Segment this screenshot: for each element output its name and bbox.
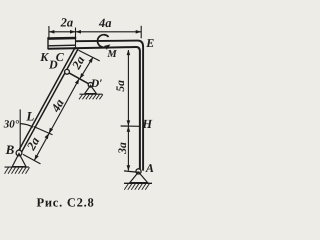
dimension extension from B — [23, 154, 41, 164]
top bar K-C inner lower line — [49, 44, 76, 47]
tick at H — [121, 125, 140, 127]
arrow right of 2a — [70, 30, 76, 34]
support D' hatching — [79, 95, 103, 100]
arrow at B end — [34, 155, 38, 161]
tick at A level — [124, 171, 140, 173]
dimension 5a line — [127, 50, 129, 126]
top bar K-E outline — [48, 37, 143, 170]
svg-text:30°: 30° — [3, 118, 20, 130]
bar B-C double line — [18, 47, 78, 153]
arrow at L up — [45, 133, 49, 139]
svg-text:5a: 5a — [115, 80, 127, 92]
support B pin circle — [16, 150, 22, 156]
svg-text:L: L — [25, 109, 34, 124]
support D' triangle — [85, 85, 97, 93]
svg-text:K: K — [39, 50, 49, 64]
dimension top: extension tick left (K) — [48, 26, 50, 38]
svg-text:D′: D′ — [90, 78, 103, 90]
dimension line B-L-D (lower) — [34, 79, 79, 161]
arrow right of 4a — [136, 30, 142, 34]
rod D-D' — [67, 72, 91, 85]
arrow left of 2a — [49, 30, 55, 34]
dimension top: extension tick middle (C) — [75, 28, 77, 50]
support A pin circle — [136, 169, 141, 174]
support B hatching — [5, 167, 30, 173]
svg-text:Рис. С2.8: Рис. С2.8 — [36, 196, 94, 210]
arrow C-D top — [89, 57, 94, 63]
angle arc 30deg — [20, 124, 33, 128]
arrow 5a top — [127, 50, 131, 56]
svg-text:2a: 2a — [60, 15, 74, 29]
support D' pin circle — [88, 83, 93, 88]
support B triangle — [12, 154, 26, 167]
support D' ground line — [80, 93, 103, 95]
svg-text:D: D — [48, 57, 58, 71]
svg-text:4a: 4a — [98, 16, 112, 30]
tick at L — [34, 127, 53, 135]
svg-text:B: B — [5, 142, 15, 157]
support A ground line — [124, 182, 152, 184]
dimension extension from C — [79, 50, 100, 61]
support A triangle — [130, 172, 148, 183]
dimension line C-D (2a) — [80, 57, 93, 79]
arrow at L down — [49, 128, 53, 134]
dimension 2a/4a top: line — [49, 31, 141, 33]
svg-text:E: E — [145, 36, 154, 50]
hinge D circle — [65, 69, 70, 74]
arrow left of 4a — [76, 30, 82, 34]
arrow 3a top — [127, 126, 131, 132]
support A hatching — [124, 184, 149, 190]
arrow 3a bottom — [127, 165, 131, 171]
svg-text:M: M — [106, 49, 117, 60]
moment M arc — [98, 35, 109, 48]
arrow at rod end of 4a — [75, 79, 79, 85]
dimension 3a line — [127, 126, 129, 170]
svg-text:H: H — [141, 117, 153, 131]
support B ground line — [5, 166, 30, 168]
arrow 5a bottom — [127, 120, 131, 126]
dimension top: extension tick right (E) — [140, 26, 142, 39]
angle vertical line at B — [19, 109, 21, 149]
moment M arrowhead — [104, 44, 110, 49]
svg-text:A: A — [145, 161, 154, 175]
top bar K-C thick top edge — [48, 37, 76, 40]
arrow C-D bottom — [80, 73, 85, 79]
svg-text:3a: 3a — [117, 142, 129, 155]
